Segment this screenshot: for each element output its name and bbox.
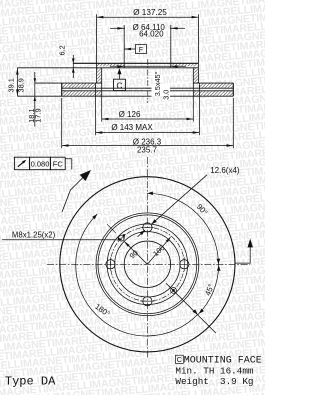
svg-text:12.6(x4): 12.6(x4) — [210, 166, 240, 175]
svg-text:Type DA: Type DA — [5, 375, 56, 389]
svg-text:F: F — [139, 47, 143, 54]
svg-text:Min. TH 16.4mm: Min. TH 16.4mm — [175, 365, 254, 376]
svg-text:39.1: 39.1 — [6, 78, 15, 92]
svg-text:Ø 143 MAX: Ø 143 MAX — [111, 123, 153, 132]
svg-text:6.2: 6.2 — [58, 45, 67, 55]
svg-text:64.020: 64.020 — [139, 30, 164, 39]
svg-text:M8x1.25(x2): M8x1.25(x2) — [12, 230, 56, 239]
svg-text:Weight 3.9 Kg: Weight 3.9 Kg — [175, 376, 253, 387]
svg-text:Ø 137.25: Ø 137.25 — [133, 8, 167, 17]
svg-text:Ø 126: Ø 126 — [119, 110, 141, 119]
svg-text:FC: FC — [53, 159, 64, 168]
svg-text:C: C — [116, 81, 122, 91]
svg-text:17.9: 17.9 — [34, 108, 43, 122]
svg-text:235.7: 235.7 — [137, 145, 158, 154]
svg-text:38.9: 38.9 — [16, 78, 25, 92]
svg-text:C: C — [177, 355, 182, 364]
svg-text:3.0: 3.0 — [162, 90, 171, 100]
svg-text:0.080: 0.080 — [31, 159, 50, 168]
